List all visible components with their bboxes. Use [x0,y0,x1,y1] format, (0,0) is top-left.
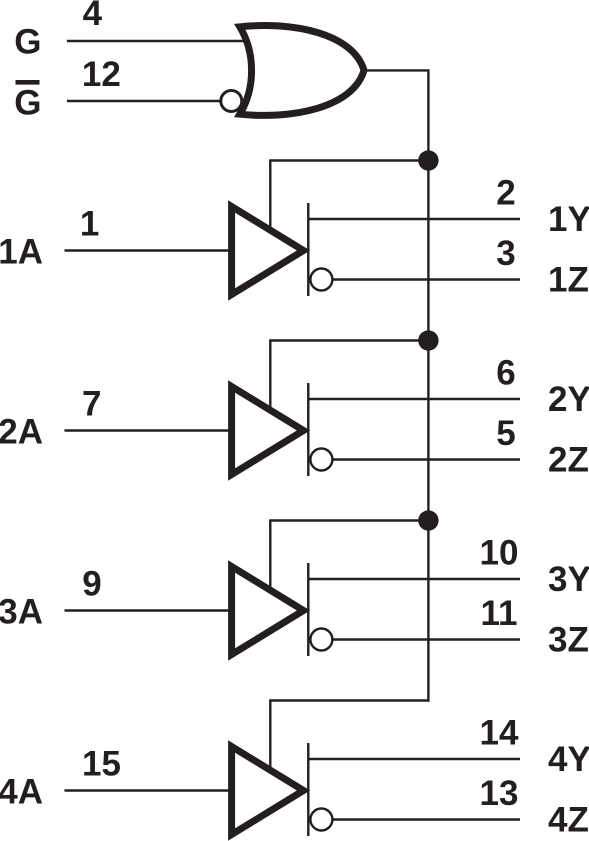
svg-text:2Z: 2Z [548,441,589,480]
junction dot 2 on enable bus [418,330,438,350]
or-gate U1 enable [240,26,364,116]
wire U1 output to enable bus [366,69,430,71]
bubble on 2Z output [310,449,332,471]
wire enable bus to driver 4 horizontal [269,699,429,701]
wire enable bus vertical [427,70,429,701]
wire output 1Z [332,278,520,280]
bubble on 1Z output [310,269,332,291]
svg-text:2Y: 2Y [548,380,589,419]
wire output 4Z [332,818,520,820]
svg-text:1: 1 [80,205,99,244]
wire enable tap driver 3 horizontal [269,519,428,521]
wire output 1Y [308,218,520,220]
svg-text:3Y: 3Y [548,560,589,599]
svg-text:13: 13 [480,774,519,813]
driver 4 triangle [232,747,304,835]
wire input 2A [65,429,231,431]
bubble on 4Z output [310,809,332,831]
svg-text:3A: 3A [0,593,43,632]
junction dot 3 on enable bus [418,510,438,530]
wire output 2Y [308,398,520,400]
svg-text:4: 4 [83,0,103,33]
wire enable tap driver 2 vertical [269,341,271,409]
svg-text:4A: 4A [0,773,43,812]
svg-text:2A: 2A [0,413,43,452]
svg-text:15: 15 [82,745,121,784]
svg-text:3Z: 3Z [548,621,589,660]
driver 3 output bar [307,563,309,656]
svg-text:1A: 1A [0,233,43,272]
wire enable tap driver 2 horizontal [269,339,428,341]
svg-text:12: 12 [82,55,121,94]
wire output 3Z [332,638,520,640]
svg-text:4Y: 4Y [548,740,589,779]
svg-text:G: G [14,23,41,62]
svg-text:4Z: 4Z [548,801,589,840]
svg-text:G: G [14,84,41,123]
svg-text:11: 11 [481,594,518,633]
driver 2 output bar [307,383,309,476]
svg-text:6: 6 [496,354,515,393]
wire G input pin 4 [67,40,250,42]
svg-text:14: 14 [480,714,519,753]
wire input 3A [65,609,231,611]
wire input 1A [65,249,231,251]
driver 1 triangle [232,207,304,295]
svg-text:10: 10 [480,534,519,573]
svg-text:9: 9 [82,565,101,604]
wire enable tap driver 1 horizontal [269,159,428,161]
driver 1 output bar [307,203,309,296]
driver 4 output bar [307,743,309,836]
bubble on Gbar input of U1 [221,91,242,112]
svg-text:3: 3 [496,234,515,273]
driver 3 triangle [232,567,304,655]
wire enable bus to driver 4 vertical [269,701,271,769]
wire output 3Y [308,578,520,580]
svg-text:7: 7 [82,385,101,424]
wire output 2Z [332,458,520,460]
svg-text:1Z: 1Z [548,261,589,300]
bubble on 3Z output [310,629,332,651]
junction dot 1 on enable bus [418,150,438,170]
driver 2 triangle [232,387,304,475]
svg-text:2: 2 [496,174,515,213]
wire input 4A [65,789,231,791]
wire Gbar input pin 12 [67,100,221,102]
svg-text:1Y: 1Y [548,200,589,239]
wire output 4Y [308,758,520,760]
wire enable tap driver 3 vertical [269,521,271,589]
node Gbar label [14,80,41,123]
wire enable tap driver 1 vertical [269,161,271,229]
svg-text:5: 5 [496,414,515,453]
